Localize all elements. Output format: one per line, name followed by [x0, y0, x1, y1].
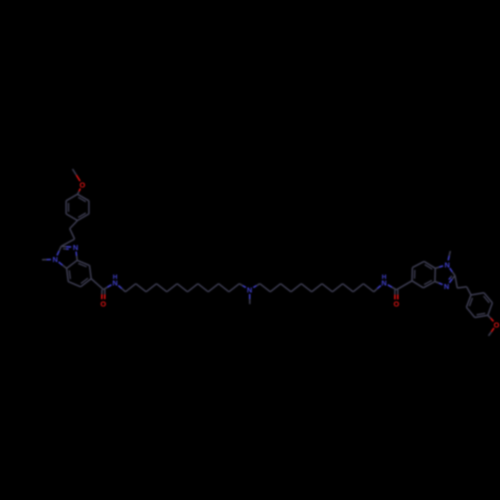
atom label amide H (left): [111, 272, 119, 280]
atom label amide H (right): [380, 272, 388, 280]
svg-text:H: H: [382, 274, 387, 281]
atom label central N: [246, 286, 254, 294]
atom label N1' (right): [443, 261, 451, 269]
left amide C=O: [101, 290, 103, 295]
left benzimidazole pentagon: [57, 251, 59, 256]
right dodecyl chain: [253, 286, 256, 288]
svg-text:N: N: [444, 282, 449, 291]
atom label N3 (left): [72, 243, 80, 251]
svg-text:N: N: [53, 255, 58, 264]
svg-text:O: O: [100, 299, 106, 308]
atom label amide O (left): [99, 299, 107, 307]
right benzimidazole pentagon: [450, 268, 453, 272]
svg-text:O: O: [394, 300, 400, 309]
right N1'-methyl: [448, 256, 449, 261]
svg-text:N: N: [73, 243, 78, 252]
atom label N3' (right): [443, 282, 451, 290]
bond O-CH3 (left methoxy methyl): [76, 175, 80, 181]
central N-methyl: [249, 294, 251, 299]
atom label O methoxy (left): [78, 181, 86, 189]
left bond C5-C(=O): [91, 279, 103, 290]
svg-text:O: O: [80, 181, 86, 190]
bond O-C aryl (left): [79, 189, 80, 192]
right amide N-C: [388, 285, 392, 288]
left N1-methyl: [47, 259, 51, 261]
atom label O methoxy (right): [493, 321, 500, 329]
right anisole benzene ring: [475, 315, 488, 317]
right benzo ring: [434, 268, 436, 281]
left anisole benzene ring: [78, 194, 89, 201]
atom label N1 (left): [51, 255, 59, 263]
svg-text:N: N: [247, 286, 252, 295]
left benzo ring: [67, 260, 78, 268]
svg-text:N: N: [445, 261, 450, 270]
left dodecyl chain: [118, 286, 122, 289]
bond O-CH3 (right methoxy methyl): [491, 328, 494, 332]
bond O-C aryl (right): [491, 318, 494, 321]
right phenethyl linker CH2-CH2: [455, 276, 457, 288]
left phenethyl linker CH2-CH2: [70, 221, 78, 229]
atom label amide N (right): [380, 279, 388, 287]
left amide C-N: [103, 287, 107, 289]
atom label amide N (left): [111, 279, 119, 287]
atom label amide O (right): [392, 300, 400, 308]
right amide C=O: [394, 290, 396, 295]
svg-text:O: O: [494, 320, 500, 329]
right bond C(=O)-C5': [396, 281, 412, 290]
svg-text:H: H: [113, 274, 118, 281]
